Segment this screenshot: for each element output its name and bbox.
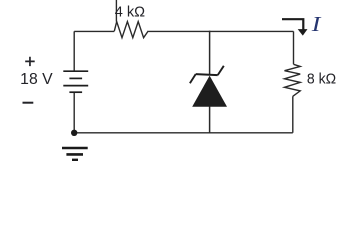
zener diode D1 right bend xyxy=(218,66,224,75)
svg-text:I: I xyxy=(311,12,322,36)
battery plus label xyxy=(25,57,35,66)
wire left vertical (source branch) xyxy=(73,31,75,132)
resistor R1 4 kOhm zigzag xyxy=(114,22,148,38)
current arrow I xyxy=(282,19,303,30)
zener diode D1 cathode bar xyxy=(196,74,218,75)
svg-text:4 kΩ: 4 kΩ xyxy=(115,5,145,21)
zener diode D1 left bend xyxy=(190,74,196,83)
wire bottom rail xyxy=(74,132,293,134)
zener diode D1 anode triangle xyxy=(192,76,227,107)
svg-text:8 kΩ: 8 kΩ xyxy=(307,70,336,87)
wire top rail xyxy=(74,30,293,32)
current arrow head xyxy=(298,29,308,35)
svg-text:18 V: 18 V xyxy=(20,71,53,88)
zener diode D1 top lead xyxy=(209,31,211,74)
zener diode D1 bottom lead xyxy=(209,107,211,133)
wire right vertical (load branch) xyxy=(292,31,295,132)
resistor R2 8 kOhm zigzag xyxy=(285,64,301,96)
battery minus label xyxy=(23,102,34,104)
junction node dot xyxy=(71,130,77,136)
battery V1 plates xyxy=(63,71,88,92)
ground symbol xyxy=(62,148,88,160)
wire stub remnant above resistor R1 xyxy=(115,0,117,22)
